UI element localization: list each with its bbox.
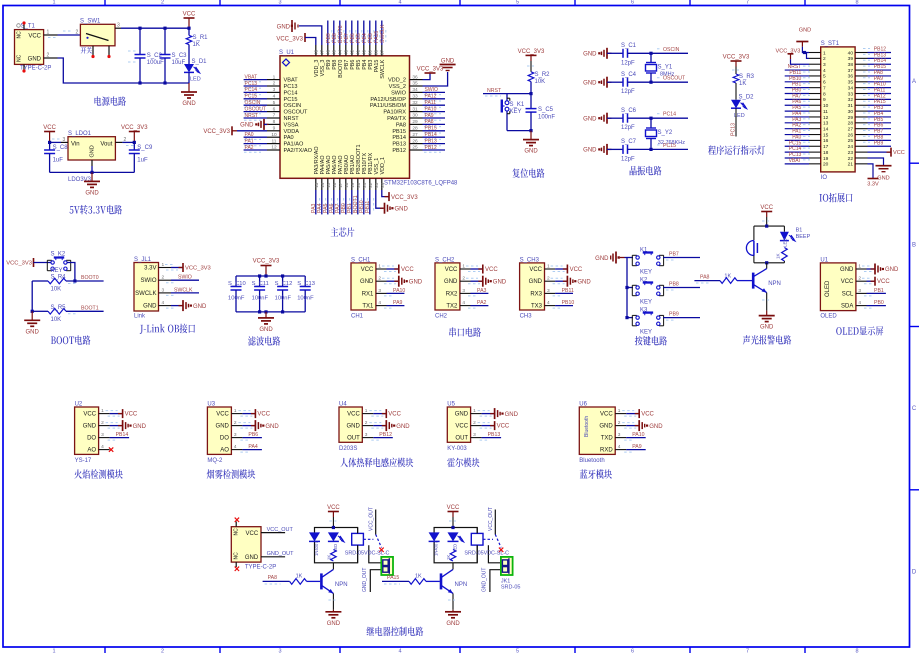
svg-text:10K: 10K: [535, 79, 546, 85]
svg-text:PA4: PA4: [248, 444, 258, 450]
wire / net PA10: [868, 87, 892, 89]
resistor S_R1 1K: [188, 28, 190, 35]
svg-text:KEY: KEY: [640, 270, 652, 276]
wire / net PC13: [244, 85, 267, 87]
svg-text:VCC: VCC: [246, 531, 259, 537]
pin 36 VDD_2: [410, 79, 423, 81]
wire / net PA5: [327, 190, 329, 214]
svg-text:GND: GND: [409, 279, 423, 285]
svg-text:4: 4: [398, 649, 401, 653]
pin 39: [855, 57, 867, 59]
svg-text:32: 32: [412, 100, 418, 106]
svg-text:11: 11: [823, 109, 828, 115]
pin 34 SWIO: [410, 91, 423, 93]
wire / net PB6: [351, 21, 353, 46]
svg-text:GND: GND: [799, 28, 811, 34]
svg-text:26: 26: [848, 132, 854, 138]
pin 1: [809, 52, 821, 54]
pin 11 PA1/AO: [267, 143, 280, 145]
svg-text:SRD-05VDC-SL-C: SRD-05VDC-SL-C: [345, 551, 390, 557]
wire top rail: [236, 275, 305, 277]
ground: [264, 123, 269, 125]
svg-text:GND: GND: [455, 412, 469, 418]
ground: [394, 280, 399, 282]
svg-text:8: 8: [273, 119, 276, 125]
regulator S_LDO1 LDO3V3: [68, 137, 115, 160]
svg-text:VBAT: VBAT: [284, 78, 299, 84]
wire / net PA0: [785, 139, 809, 141]
svg-text:VCC: VCC: [455, 424, 468, 430]
wire LDO GND to rail: [91, 160, 93, 166]
svg-text:100nF: 100nF: [538, 115, 555, 121]
wire / net PC13: [735, 108, 737, 136]
svg-text:5: 5: [516, 0, 519, 5]
svg-text:VCC: VCC: [841, 279, 854, 285]
svg-text:GND: GND: [840, 267, 854, 273]
wire emitter to ground: [332, 593, 334, 609]
capacitor S_C5 100nF: [530, 94, 532, 109]
resistor S_R5 10K: [32, 310, 48, 312]
power port VCC: [555, 268, 567, 270]
svg-text:GND: GND: [26, 329, 40, 335]
pin 38 PA15: [375, 45, 377, 56]
pin 44 BOOT0: [339, 45, 341, 56]
svg-text:20: 20: [356, 182, 361, 188]
wire / net PB5: [357, 21, 359, 46]
title IO expansion: [819, 193, 852, 202]
svg-text:17: 17: [338, 182, 343, 188]
relay switch blade: [363, 538, 373, 540]
pin 45 PB8: [333, 45, 335, 56]
svg-text:17: 17: [823, 144, 829, 150]
svg-text:S_C7: S_C7: [621, 139, 637, 145]
wire / net SWCLK: [171, 292, 199, 294]
pin 11: [809, 110, 821, 112]
ground: [490, 413, 495, 415]
svg-text:U3: U3: [207, 401, 215, 407]
power port VCC: [626, 413, 639, 415]
wire / net PA11: [423, 104, 446, 106]
pin 41 PB5: [357, 45, 359, 56]
svg-text:S_C11: S_C11: [252, 281, 269, 287]
svg-text:1K: 1K: [193, 42, 200, 48]
svg-text:8: 8: [855, 649, 858, 653]
wire emitter to ground: [766, 293, 768, 311]
svg-text:S_Y2: S_Y2: [658, 130, 673, 136]
svg-text:VCC: VCC: [570, 267, 583, 273]
ground pin4: [171, 305, 183, 307]
svg-text:33: 33: [848, 91, 854, 97]
module U4 D203S: [339, 407, 362, 442]
svg-text:VCC: VCC: [893, 150, 905, 156]
svg-text:1N4007: 1N4007: [314, 541, 319, 556]
pin 22 PB11/RX: [369, 178, 371, 190]
pin 12: [809, 116, 821, 118]
title J-Link OB: [140, 324, 195, 334]
svg-text:25: 25: [848, 138, 854, 144]
capacitor S_C4 12pF: [607, 81, 623, 83]
svg-text:S_C6: S_C6: [621, 108, 637, 114]
svg-text:23: 23: [374, 182, 379, 188]
svg-text:21: 21: [848, 162, 854, 168]
pin 33 PA12/USB/DP: [410, 98, 423, 100]
svg-text:PB9: PB9: [874, 140, 884, 146]
power port VCC_3V3 (VDD_1): [382, 190, 389, 197]
svg-text:12: 12: [271, 145, 277, 151]
resistor S_R3 1K: [733, 74, 739, 83]
svg-text:S_Y1: S_Y1: [658, 64, 673, 70]
wire / net PA10: [423, 111, 446, 113]
svg-text:PB13: PB13: [425, 138, 437, 144]
svg-text:15: 15: [326, 182, 331, 188]
svg-text:S_SW1: S_SW1: [80, 19, 101, 25]
svg-text:PB12: PB12: [379, 432, 392, 438]
ground pin2: [555, 280, 567, 282]
ground: [871, 268, 876, 270]
svg-text:PA10: PA10: [632, 432, 644, 438]
svg-text:GND: GND: [505, 412, 519, 418]
svg-text:OSCIN: OSCIN: [284, 103, 302, 109]
svg-text:B: B: [912, 243, 916, 249]
pin 27 PB14: [410, 136, 423, 138]
svg-text:SDA: SDA: [841, 304, 853, 310]
svg-text:VCC: VCC: [497, 424, 510, 430]
svg-text:B1: B1: [796, 228, 803, 234]
pin 33: [855, 93, 867, 95]
wire coil stubs: [357, 528, 359, 534]
svg-text:BOOT1: BOOT1: [81, 305, 99, 311]
svg-text:OUT: OUT: [347, 436, 360, 442]
wire / net PB14: [110, 437, 130, 439]
svg-text:PA9: PA9: [632, 444, 642, 450]
svg-text:TX1: TX1: [362, 304, 374, 310]
svg-text:PA9: PA9: [393, 300, 403, 306]
svg-text:13: 13: [823, 121, 829, 127]
svg-text:TXD: TXD: [601, 436, 614, 442]
svg-text:GND: GND: [583, 52, 597, 58]
svg-text:S_R1: S_R1: [193, 35, 209, 41]
svg-text:GND: GND: [595, 256, 609, 262]
pin 24 VDD_1: [381, 178, 383, 190]
wire / net PA3: [315, 190, 317, 214]
svg-text:SWCLK: SWCLK: [135, 291, 156, 297]
ground pin2: [471, 280, 483, 282]
svg-text:PB1: PB1: [874, 288, 884, 294]
svg-text:VCC: VCC: [641, 412, 654, 418]
svg-text:31: 31: [412, 106, 418, 112]
svg-text:39: 39: [367, 49, 372, 55]
svg-text:PB11: PB11: [365, 201, 371, 213]
svg-text:2: 2: [47, 53, 50, 59]
svg-text:7: 7: [823, 85, 826, 91]
power port VCC pin23: [868, 151, 892, 153]
power port VCC_3V3 (VDD_2): [423, 73, 431, 80]
svg-text:NPN: NPN: [768, 281, 781, 287]
connector TYPE-C-2P output: [231, 527, 261, 562]
svg-text:S_C4: S_C4: [621, 72, 637, 78]
wire LDO Vin: [61, 141, 68, 143]
wire / net PA4: [242, 449, 262, 451]
ground (VSS_1): [376, 190, 383, 208]
pin 29: [855, 116, 867, 118]
ground (VSS_2): [423, 72, 448, 86]
ground: [118, 425, 123, 427]
svg-text:1K: 1K: [327, 555, 332, 560]
svg-text:VCC_3V3: VCC_3V3: [723, 55, 750, 61]
wire collector: [452, 563, 454, 570]
svg-text:TX2: TX2: [446, 304, 458, 310]
wire / net PB13: [868, 57, 892, 59]
pin 2: [809, 57, 821, 59]
capacitor S_C9 1uF: [133, 142, 135, 150]
svg-text:12pF: 12pF: [621, 125, 635, 131]
ground pin22: [868, 158, 884, 166]
svg-text:11: 11: [272, 138, 277, 144]
ground: [452, 610, 454, 612]
svg-text:3.3V: 3.3V: [144, 266, 156, 272]
svg-text:SRD-05VDC-SL-C: SRD-05VDC-SL-C: [464, 551, 509, 557]
module U2 YS-17: [75, 407, 99, 454]
pin 15: [809, 134, 821, 136]
svg-text:SWIO: SWIO: [141, 278, 157, 284]
wire / net SWCLK: [381, 21, 383, 46]
pin 37 SWCLK: [381, 45, 383, 56]
svg-text:S_C10: S_C10: [228, 281, 246, 287]
wire bottom: [507, 130, 531, 132]
wire / net PC14: [244, 91, 267, 93]
svg-text:PA11/USB/DM: PA11/USB/DM: [370, 103, 407, 109]
wire / net PB5: [868, 122, 892, 124]
pin 22: [855, 157, 867, 159]
svg-text:1K: 1K: [446, 555, 451, 560]
svg-text:GND: GND: [245, 555, 259, 561]
wire / net PC13: [785, 157, 809, 159]
transistor NPN: [320, 573, 323, 589]
svg-text:S_C1: S_C1: [621, 43, 637, 49]
capacitor S_C11 100nF: [259, 276, 261, 287]
pin 26 PB13: [410, 143, 423, 145]
svg-text:PA12: PA12: [425, 94, 437, 100]
svg-text:PA9: PA9: [425, 113, 434, 119]
wire / net PA6: [785, 104, 809, 106]
svg-text:K3: K3: [640, 308, 648, 314]
title Bluetooth module: [580, 469, 612, 478]
pin 5 OSCIN: [267, 104, 280, 106]
svg-text:2: 2: [823, 56, 826, 62]
capacitor S_C7 12pF: [607, 148, 623, 150]
resistor 1K base: [694, 280, 720, 282]
svg-text:22: 22: [848, 156, 854, 162]
pin 17: [809, 145, 821, 147]
ground: [251, 425, 256, 427]
svg-text:12pF: 12pF: [621, 60, 635, 66]
svg-text:SWCLK: SWCLK: [380, 24, 386, 43]
resistor S_R4 10K: [32, 280, 48, 282]
svg-text:VCC_3V3: VCC_3V3: [203, 129, 230, 135]
pin 40: [855, 52, 867, 54]
wire / net PB9: [868, 145, 892, 147]
capacitor S_C3 10uF: [164, 28, 166, 54]
key S_K1 KEY: [506, 94, 508, 101]
svg-text:100nF: 100nF: [228, 296, 245, 302]
pin 42 PB6: [351, 45, 353, 56]
svg-text:31: 31: [848, 103, 854, 109]
pin 48 VDD_3: [315, 45, 317, 56]
wire switch NO to connector: [369, 545, 382, 563]
wire / net PB1: [351, 190, 353, 214]
svg-text:29: 29: [848, 115, 854, 121]
ground pin1: [867, 268, 876, 270]
pin 18 PB0/AO: [345, 178, 347, 190]
key K3 KEY: [627, 317, 633, 319]
wire bottom rail: [236, 311, 305, 313]
wire / net PA2: [471, 305, 489, 307]
wire / net PB8: [663, 287, 700, 289]
svg-text:NRST: NRST: [284, 116, 300, 122]
svg-text:SWCLK: SWCLK: [174, 287, 193, 293]
capacitor S_C2 100uF: [139, 28, 141, 54]
margin ticks bottom: [104, 647, 106, 653]
wire / net PA1: [785, 134, 809, 136]
svg-text:3: 3: [278, 649, 281, 653]
svg-text:NC: NC: [234, 552, 240, 560]
svg-text:38: 38: [373, 49, 378, 55]
svg-text:9: 9: [273, 126, 276, 132]
svg-text:15: 15: [823, 132, 829, 138]
svg-text:YS-17: YS-17: [75, 458, 92, 464]
LED S_D1: [184, 64, 194, 72]
svg-text:SWCLK: SWCLK: [380, 59, 386, 79]
pin 8 VSSA: [267, 123, 280, 125]
svg-text:PC14: PC14: [284, 90, 298, 96]
title serial circuit: [449, 327, 481, 336]
svg-text:100nF: 100nF: [275, 296, 292, 302]
pin 23 VSS_1: [375, 178, 377, 190]
svg-text:GND: GND: [577, 279, 591, 285]
wire / net PB1: [785, 87, 809, 89]
svg-text:S_C5: S_C5: [538, 107, 554, 113]
crystal S_Y1 8MHz: [650, 53, 652, 62]
svg-text:6: 6: [273, 106, 276, 112]
svg-text:S_U1: S_U1: [279, 50, 295, 56]
svg-text:PA8: PA8: [396, 122, 406, 128]
svg-text:1: 1: [273, 74, 276, 80]
svg-text:28: 28: [412, 126, 418, 132]
svg-text:10uF: 10uF: [172, 60, 186, 66]
svg-text:10K: 10K: [51, 287, 62, 293]
svg-text:2: 2: [76, 30, 79, 36]
pin 17 PA7/AO: [339, 178, 341, 190]
svg-text:KEY: KEY: [640, 300, 652, 306]
wire / net PB1: [867, 292, 886, 294]
LED: [328, 532, 339, 541]
title OLED display: [836, 326, 883, 335]
wire / net PA15: [382, 580, 409, 582]
ground: [31, 311, 33, 320]
svg-text:34: 34: [848, 85, 854, 91]
svg-text:7: 7: [273, 113, 276, 119]
svg-text:PA8: PA8: [268, 575, 278, 581]
wire / net PA7: [785, 98, 809, 100]
svg-text:Bluetooth: Bluetooth: [579, 458, 604, 464]
svg-text:GND: GND: [877, 176, 889, 182]
title 5V to 3.3V: [70, 205, 123, 215]
svg-text:SWIO: SWIO: [178, 275, 192, 281]
wire / net SWIO: [423, 91, 446, 93]
svg-text:OSCIN: OSCIN: [663, 47, 680, 53]
svg-text:GND: GND: [193, 304, 207, 310]
svg-text:BEEP: BEEP: [796, 234, 811, 240]
svg-text:NC: NC: [234, 528, 240, 536]
svg-text:GND: GND: [360, 279, 374, 285]
svg-text:LED: LED: [190, 77, 201, 83]
svg-text:4: 4: [823, 68, 826, 74]
svg-text:PA10/RX: PA10/RX: [383, 110, 406, 116]
pin 39 PB3: [369, 45, 371, 56]
wire coil stubs: [476, 528, 478, 534]
wire / net PA8: [868, 75, 892, 77]
svg-text:44: 44: [337, 49, 342, 55]
svg-text:NC: NC: [17, 54, 23, 62]
title main chip: [331, 227, 355, 236]
wire / net PA2: [785, 128, 809, 130]
ground: [242, 425, 255, 427]
svg-text:KEY: KEY: [51, 268, 63, 274]
svg-text:8: 8: [823, 91, 826, 97]
pin 3 PC14: [267, 91, 280, 93]
wire / net PB11: [785, 75, 809, 77]
svg-text:U4: U4: [339, 401, 347, 407]
svg-text:37: 37: [848, 68, 854, 74]
svg-text:GND: GND: [346, 424, 360, 430]
svg-text:PB8: PB8: [669, 282, 679, 288]
title MQ-2 module: [207, 469, 256, 479]
ground: [380, 207, 385, 209]
svg-text:PA3: PA3: [477, 288, 487, 294]
svg-text:S_CH1: S_CH1: [351, 257, 371, 263]
resistor S_R2 10K: [528, 72, 534, 82]
pin 14 PA4/AO: [321, 178, 323, 190]
svg-text:PC15: PC15: [284, 97, 298, 103]
power port VCC: [110, 413, 123, 415]
svg-text:VCC: VCC: [327, 505, 340, 511]
switch bottom stubs: [92, 46, 94, 56]
svg-text:PB15: PB15: [392, 129, 406, 135]
svg-text:8: 8: [855, 0, 858, 5]
ground: [563, 280, 568, 282]
svg-text:VCC_3V3: VCC_3V3: [276, 37, 303, 43]
pin 9: [809, 98, 821, 100]
svg-text:GND: GND: [441, 59, 455, 65]
svg-text:PB7: PB7: [669, 252, 679, 258]
svg-text:PC13: PC13: [731, 123, 737, 136]
pin 25 PB12: [410, 149, 423, 151]
svg-text:16: 16: [332, 182, 337, 188]
ground: [607, 148, 612, 150]
svg-text:7: 7: [746, 0, 749, 5]
svg-text:14: 14: [320, 182, 325, 188]
title relay control: [367, 627, 424, 637]
svg-text:30: 30: [848, 109, 854, 115]
power port VCC: [373, 413, 386, 415]
ground: [382, 425, 387, 427]
svg-text:6: 6: [631, 649, 634, 653]
svg-text:7: 7: [746, 649, 749, 653]
svg-text:6: 6: [823, 80, 826, 86]
svg-text:38: 38: [848, 62, 854, 68]
svg-text:12pF: 12pF: [621, 89, 635, 95]
svg-text:S_C9: S_C9: [137, 145, 153, 151]
